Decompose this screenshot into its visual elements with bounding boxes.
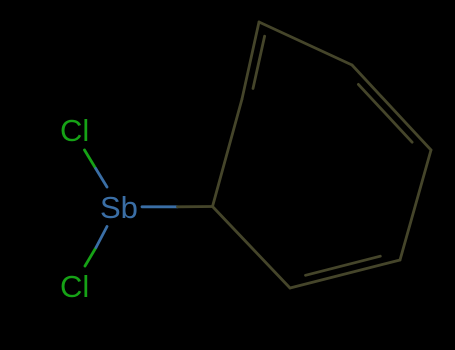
wire double-bond inner line C6=C7 — [306, 256, 381, 275]
wire bond Sb-Cl (upper), Sb-colored half — [96, 169, 107, 188]
wire bond Sb-Cl (lower), Cl-colored half — [85, 248, 96, 267]
wire double-bond inner line C2=C3 — [253, 36, 265, 88]
wire bond Sb-Cl (upper), Cl-colored half — [85, 150, 96, 169]
wire ring bond C3-C4 — [259, 22, 352, 65]
wire ring bond C2-C3 — [242, 22, 259, 99]
wire bond Sb-C1, Sb-colored half — [142, 205, 178, 208]
wire ring bond C5-C6 — [400, 150, 431, 260]
wire ring bond C1-C2 — [213, 99, 243, 207]
wire ring bond C7-C1 — [213, 207, 291, 289]
wire bond Sb-C1, carbon-colored half — [178, 205, 213, 208]
atom label Cl (upper chlorine) — [60, 115, 89, 146]
wire ring bond C4-C5 — [352, 65, 431, 150]
atom label Sb (antimony) — [100, 192, 138, 223]
wire double-bond inner line C4=C5 — [358, 84, 412, 142]
atom label Cl (lower chlorine) — [60, 271, 89, 302]
wire ring bond C6-C7 — [290, 260, 400, 288]
wire bond Sb-Cl (lower), Sb-colored half — [96, 227, 107, 248]
